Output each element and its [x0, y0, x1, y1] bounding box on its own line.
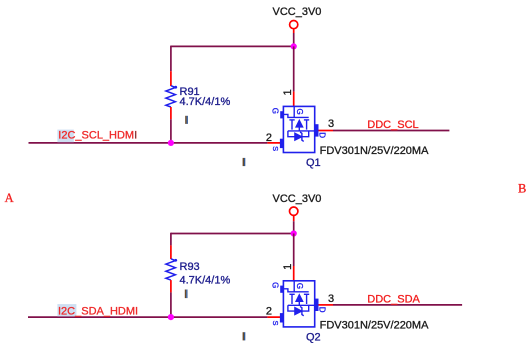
wire down to resistor R93 — [170, 233, 172, 246]
svg-text:Q1: Q1 — [306, 157, 321, 169]
wire horizontal VCC rail (top) — [171, 45, 294, 47]
wire resistor to net (bottom) — [170, 292, 172, 317]
junction at VCC rail (top) — [291, 43, 297, 49]
wire net DDC_SDA — [333, 304, 462, 306]
svg-text:G: G — [295, 283, 304, 289]
note I below R93 — [185, 290, 188, 299]
svg-text:G: G — [270, 282, 279, 288]
selection highlight on net label (top) — [57, 130, 73, 143]
note I below R91 — [185, 116, 188, 124]
svg-text:FDV301N/25V/220MA: FDV301N/25V/220MA — [320, 319, 429, 331]
svg-text:2: 2 — [266, 306, 272, 318]
pin 1 stub of Q2 — [293, 266, 295, 281]
transistor Q1 FDV301N — [280, 106, 319, 152]
power symbol VCC_3V0 (bottom) — [273, 193, 322, 221]
svg-text:A: A — [5, 191, 14, 205]
svg-text:2: 2 — [266, 132, 272, 144]
junction at resistor on net (top) — [168, 140, 174, 146]
pin 2 stub of Q2 — [267, 316, 283, 318]
wire VCC stub to junction (top) — [293, 33, 295, 46]
wire down to resistor R91 — [170, 46, 172, 72]
svg-text:DDC_SDA: DDC_SDA — [367, 294, 420, 306]
svg-text:3: 3 — [328, 293, 334, 305]
svg-text:S: S — [271, 146, 280, 151]
svg-text:VCC_3V0: VCC_3V0 — [273, 193, 322, 205]
svg-text:S: S — [271, 320, 280, 325]
svg-text:B: B — [518, 181, 526, 195]
svg-text:D: D — [318, 132, 327, 138]
svg-text:FDV301N/25V/220MA: FDV301N/25V/220MA — [320, 145, 429, 157]
wire junction to Q1 pin 1 — [293, 46, 295, 91]
wire net DDC_SCL — [333, 130, 449, 132]
selection highlight on net label (bottom) — [57, 304, 76, 316]
wire junction to Q2 pin 1 — [293, 234, 295, 267]
svg-text:DDC_SCL: DDC_SCL — [367, 119, 418, 131]
resistor R91 — [166, 71, 177, 119]
wire resistor to net (top) — [170, 119, 172, 143]
svg-text:1: 1 — [282, 264, 294, 270]
power symbol VCC_3V0 (top) — [273, 6, 322, 33]
svg-text:1: 1 — [282, 89, 294, 95]
resistor R93 — [166, 245, 177, 292]
svg-text:D: D — [318, 307, 327, 313]
svg-text:4.7K/4/1%: 4.7K/4/1% — [180, 274, 231, 286]
wire net I2C_SDA_HDMI — [28, 316, 267, 318]
svg-text:G: G — [295, 108, 304, 114]
svg-text:3: 3 — [328, 118, 334, 130]
svg-text:4.7K/4/1%: 4.7K/4/1% — [180, 96, 231, 108]
wire horizontal VCC rail (bottom) — [171, 233, 294, 235]
svg-text:Q2: Q2 — [306, 331, 321, 343]
svg-text:R93: R93 — [180, 261, 200, 273]
pin 3 stub of Q2 — [319, 304, 334, 306]
junction at VCC rail (bottom) — [291, 230, 297, 236]
svg-text:VCC_3V0: VCC_3V0 — [273, 6, 322, 18]
wire net I2C_SCL_HDMI — [29, 142, 268, 144]
pin 1 stub of Q1 — [293, 92, 295, 107]
note I below net wire (top) — [243, 158, 246, 166]
junction at resistor on net (bottom) — [168, 314, 174, 320]
pin 3 stub of Q1 — [319, 130, 334, 132]
svg-text:I2C_SCL_HDMI: I2C_SCL_HDMI — [58, 130, 137, 142]
svg-text:G: G — [270, 108, 279, 114]
pin 2 stub of Q1 — [267, 142, 283, 144]
svg-text:I2C_SDA_HDMI: I2C_SDA_HDMI — [58, 305, 138, 317]
wire VCC stub to junction (bottom) — [293, 221, 295, 233]
note I below net wire (bottom) — [243, 332, 246, 340]
transistor Q2 FDV301N — [280, 281, 319, 327]
